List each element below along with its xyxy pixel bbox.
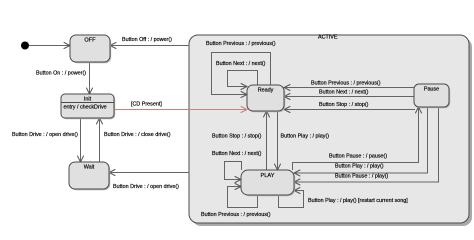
svg-text:Wait: Wait [84, 165, 95, 171]
svg-text:Button Next : / next(): Button Next : / next() [216, 61, 266, 67]
svg-text:Button Play : / play() [restar: Button Play : / play() [restart current … [308, 198, 408, 204]
svg-text:OFF: OFF [84, 38, 96, 44]
svg-text:Button Drive : / close drive(): Button Drive : / close drive() [104, 132, 171, 138]
svg-text:Button Pause : / pause(): Button Pause : / pause() [329, 154, 387, 160]
svg-text:[CD Present]: [CD Present] [131, 102, 162, 108]
svg-text:Button Next : / next(): Button Next : / next() [319, 90, 369, 96]
svg-text:Button Drive : / open drive(): Button Drive : / open drive() [113, 184, 179, 190]
svg-text:entry / checkDrive: entry / checkDrive [64, 105, 107, 111]
svg-text:Button Drive : / open drive(): Button Drive : / open drive() [12, 132, 78, 138]
svg-text:Button Previous : / previous(): Button Previous : / previous() [206, 41, 276, 47]
svg-text:Button Play : / play(): Button Play : / play() [281, 134, 330, 140]
svg-text:Button Pause : / play(): Button Pause : / play() [335, 174, 389, 180]
svg-text:Button Previous : / previous(): Button Previous : / previous() [311, 81, 381, 87]
svg-text:Button Stop : / stop(): Button Stop : / stop() [212, 134, 262, 140]
svg-text:Pause: Pause [424, 87, 439, 93]
svg-text:Button Next : / next(): Button Next : / next() [212, 151, 262, 157]
svg-text:Button Off : / power(): Button Off : / power() [122, 37, 172, 43]
svg-text:Ready: Ready [258, 88, 274, 94]
svg-text:Button On : / power(): Button On : / power() [36, 71, 86, 77]
svg-text:Button Play : / play(): Button Play : / play() [335, 164, 384, 170]
svg-text:Button Stop : / stop(): Button Stop : / stop() [319, 102, 369, 108]
svg-text:Button Previous : / previous(): Button Previous : / previous() [201, 212, 271, 218]
svg-text:PLAY: PLAY [261, 173, 275, 179]
svg-text:ACTIVE: ACTIVE [318, 35, 338, 41]
svg-text:Init: Init [84, 97, 92, 103]
